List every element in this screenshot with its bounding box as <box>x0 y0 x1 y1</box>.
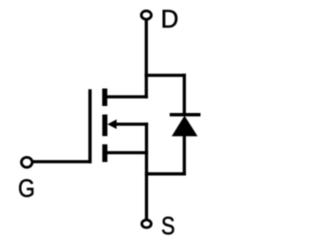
transistor Q1 drain channel bar <box>102 89 107 107</box>
transistor Q1 source channel bar <box>102 144 107 162</box>
wire: diode anode drop <box>183 135 186 176</box>
transistor Q1 gate bar <box>88 89 91 163</box>
svg-text:S: S <box>161 213 175 241</box>
terminal D <box>141 11 151 19</box>
terminal G <box>21 157 32 167</box>
transistor Q1 body arrow <box>107 119 116 129</box>
wire: source lead from MOSFET source bar <box>107 151 149 154</box>
wire: drain stem from terminal D down <box>145 20 148 99</box>
svg-text:G: G <box>18 175 35 203</box>
wire: branch from drain stem to body diode cathode <box>145 74 186 77</box>
svg-text:D: D <box>161 5 179 33</box>
wire: gate lead from terminal G <box>32 160 92 163</box>
wire: body lead from arrow to source stem <box>112 123 148 126</box>
diode D1 anode triangle <box>172 116 198 137</box>
wire: diode cathode riser <box>183 74 186 116</box>
diode D1 cathode bar <box>170 113 201 116</box>
terminal S <box>142 220 151 228</box>
wire: source stem down to terminal S <box>145 123 148 220</box>
transistor Q1 body channel bar <box>102 115 107 137</box>
wire: branch from source stem to diode anode <box>145 172 186 175</box>
wire: drain lead into MOSFET drain bar <box>105 95 148 98</box>
